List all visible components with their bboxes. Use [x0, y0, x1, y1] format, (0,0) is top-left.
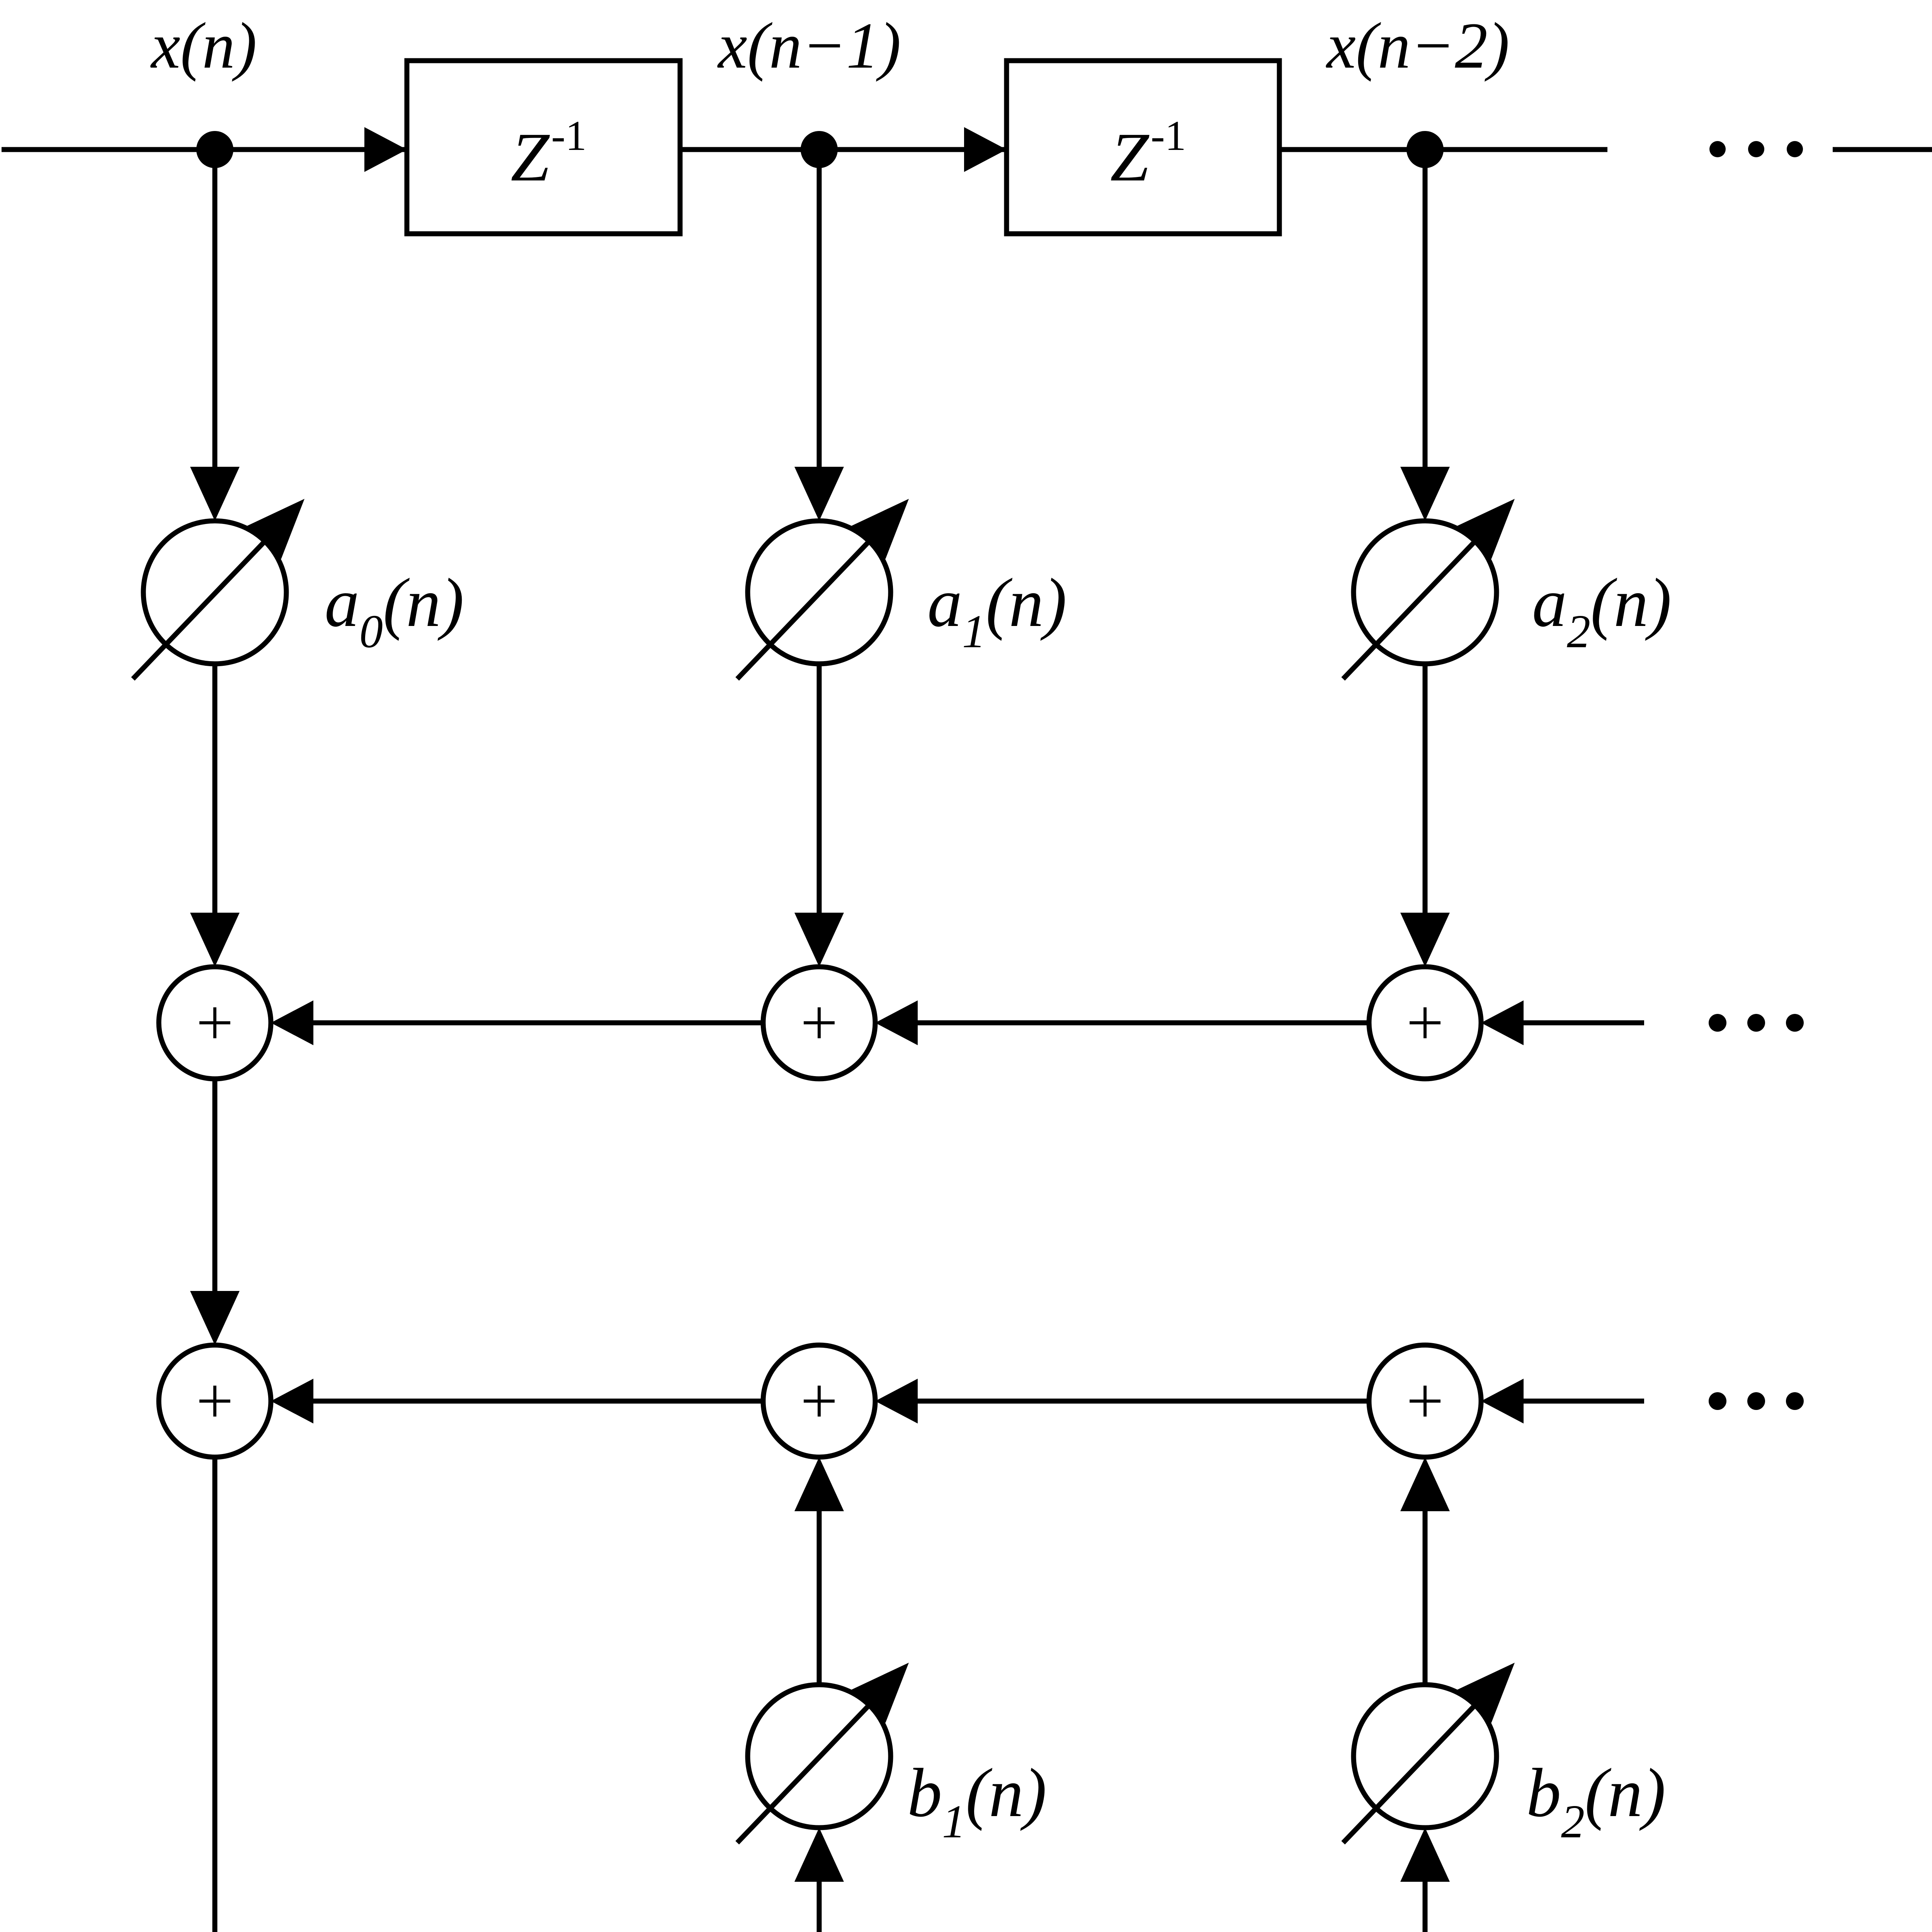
svg-text:Z: Z [1110, 119, 1150, 196]
svg-text:x(n−1): x(n−1) [717, 9, 901, 82]
svg-text:-1: -1 [1151, 112, 1186, 159]
svg-text:-1: -1 [551, 112, 587, 159]
svg-text:x(n−2): x(n−2) [1325, 9, 1509, 82]
svg-text:x(n): x(n) [150, 9, 257, 82]
svg-text:Z: Z [511, 119, 550, 196]
